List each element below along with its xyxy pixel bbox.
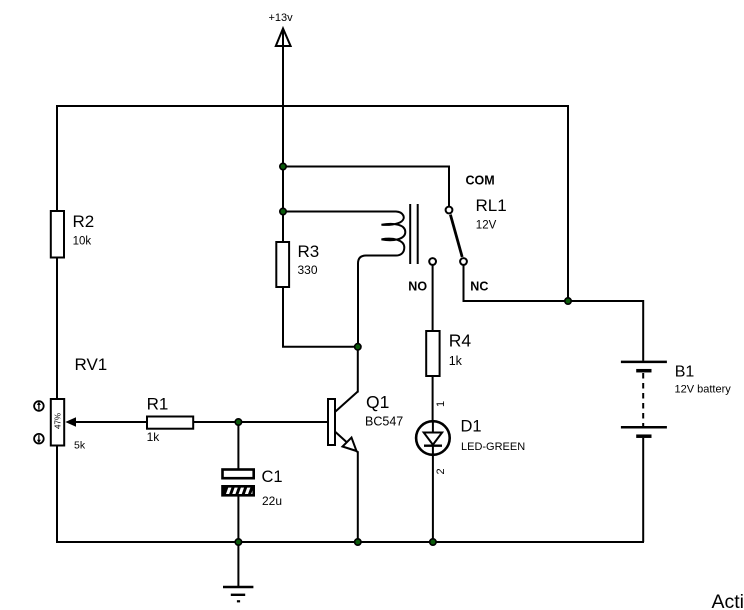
svg-text:R3: R3 bbox=[298, 242, 320, 261]
relay NC contact bbox=[460, 258, 467, 265]
node LED/bottom rail bbox=[430, 539, 436, 545]
wire C1 branch vertical bbox=[237, 422, 239, 470]
svg-text:+13v: +13v bbox=[269, 12, 294, 24]
wiper arrow bbox=[74, 421, 147, 423]
svg-text:LED-GREEN: LED-GREEN bbox=[461, 441, 525, 453]
wire junction1 to COM bbox=[283, 167, 449, 207]
svg-text:12V battery: 12V battery bbox=[675, 384, 732, 396]
svg-text:RV1: RV1 bbox=[75, 355, 108, 374]
resistor R3 bbox=[276, 242, 319, 287]
power +13v arrow symbol bbox=[276, 29, 291, 243]
svg-text:C1: C1 bbox=[262, 468, 283, 486]
relay core lines bbox=[409, 204, 411, 264]
resistor R4 bbox=[426, 331, 471, 377]
node at coil branch bbox=[280, 208, 286, 214]
node emitter/bottom rail bbox=[355, 539, 361, 545]
node base/C1 junction bbox=[235, 419, 241, 425]
ground bbox=[223, 542, 253, 601]
wire top rail bbox=[57, 105, 568, 107]
svg-text:R1: R1 bbox=[147, 395, 169, 414]
wire right rail bbox=[567, 105, 569, 301]
svg-text:12V: 12V bbox=[476, 220, 497, 232]
wire R1 to base bbox=[193, 421, 328, 423]
relay blade bbox=[450, 215, 462, 257]
svg-text:COM: COM bbox=[466, 174, 495, 188]
svg-text:D1: D1 bbox=[461, 418, 482, 436]
svg-text:330: 330 bbox=[298, 263, 318, 277]
svg-text:1k: 1k bbox=[449, 354, 463, 368]
wire R4 to LED bbox=[432, 376, 434, 421]
relay COM contact bbox=[446, 207, 453, 214]
svg-text:22u: 22u bbox=[262, 494, 282, 508]
svg-text:1k: 1k bbox=[147, 430, 161, 444]
svg-text:NC: NC bbox=[470, 280, 488, 294]
node ground junction bbox=[235, 539, 241, 545]
svg-text:BC547: BC547 bbox=[365, 415, 403, 429]
node NC/right rail bbox=[565, 298, 571, 304]
transistor Q1 bbox=[328, 346, 403, 542]
svg-text:R2: R2 bbox=[73, 212, 95, 231]
node at +13v/COM branch bbox=[280, 163, 286, 169]
resistor R1 bbox=[147, 395, 194, 445]
relay NO contact bbox=[429, 258, 436, 265]
svg-text:5k: 5k bbox=[74, 440, 86, 452]
svg-text:47%: 47% bbox=[54, 413, 63, 429]
wire left rail bbox=[56, 105, 58, 543]
svg-text:R4: R4 bbox=[449, 331, 472, 351]
relay RL1 coil bbox=[283, 212, 405, 348]
wire NC to right rail bbox=[464, 265, 569, 301]
capacitor C1 bbox=[223, 468, 283, 508]
wire bottom rail bbox=[56, 541, 644, 543]
svg-text:NO: NO bbox=[408, 280, 427, 294]
svg-text:Activa: Activa bbox=[712, 591, 744, 610]
wire NO down to R4 bbox=[432, 265, 434, 331]
potentiometer RV1 bbox=[34, 355, 147, 452]
svg-text:RL1: RL1 bbox=[476, 196, 507, 215]
svg-text:1: 1 bbox=[435, 401, 447, 407]
battery B1 bbox=[568, 301, 731, 542]
resistor R2 bbox=[51, 211, 94, 258]
svg-text:2: 2 bbox=[435, 468, 447, 474]
svg-text:B1: B1 bbox=[675, 364, 695, 381]
LED D1 bbox=[416, 418, 525, 455]
wire R3 bottom to collector junction bbox=[283, 287, 358, 347]
wire LED to bottom rail bbox=[432, 455, 434, 542]
node collector junction bbox=[355, 344, 361, 350]
svg-text:Q1: Q1 bbox=[366, 392, 389, 412]
svg-text:10k: 10k bbox=[73, 236, 92, 248]
